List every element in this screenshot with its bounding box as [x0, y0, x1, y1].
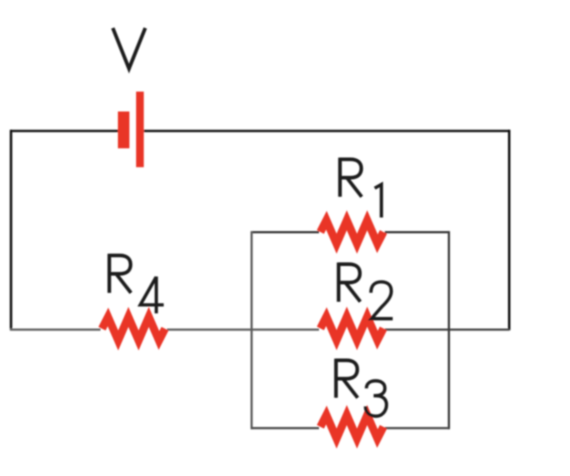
wire: inner parallel box right edge [448, 231, 450, 429]
wire: inner parallel box bottom edge, left of R3 [252, 427, 319, 429]
label R1 [340, 158, 362, 197]
battery V positive plate (tall thin bar) [136, 92, 144, 168]
label R3 [336, 359, 358, 398]
resistor R4 zigzag [102, 317, 165, 341]
wire: middle horizontal wire, R4 to R2 [167, 329, 319, 331]
label R4 [109, 254, 131, 293]
wire: inner parallel box top edge, right of R1 [385, 231, 449, 233]
wire: outer loop top-right segment (battery right lead) [144, 130, 509, 132]
battery V negative plate (short thick bar) [118, 112, 129, 149]
wire: inner parallel box left edge [251, 231, 253, 429]
wire: outer loop top-left segment (battery left lead) [11, 130, 118, 132]
resistor R2 zigzag [320, 317, 383, 341]
wire: middle horizontal wire, left of R4 [10, 329, 101, 331]
wire: middle horizontal wire, right of R2 to outer right edge [385, 329, 509, 331]
wire: inner parallel box bottom edge, right of R3 [385, 427, 449, 429]
wire: outer loop left edge [10, 130, 12, 330]
label V (battery) [113, 28, 146, 69]
resistor R3 zigzag [320, 415, 383, 439]
wire: inner parallel box top edge, left of R1 [252, 231, 319, 233]
label R2 [338, 263, 360, 302]
wire: outer loop right edge [508, 130, 510, 330]
resistor R1 zigzag [320, 220, 383, 244]
